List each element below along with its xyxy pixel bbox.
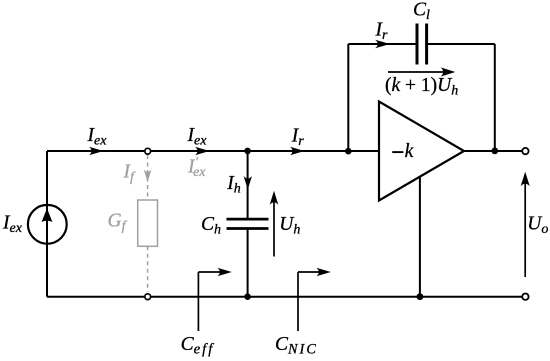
svg-text:Iex: Iex [2, 212, 23, 236]
wire gray dashed lower [147, 246, 149, 292]
svg-text:Cl: Cl [413, 0, 430, 23]
wire feedback top right [428, 43, 495, 45]
svg-text:Uo: Uo [527, 213, 548, 237]
svg-text:Ceff: Ceff [181, 334, 215, 358]
terminal output bottom [522, 294, 528, 300]
op-amp -k [379, 102, 464, 201]
svg-text:Ir: Ir [375, 20, 389, 44]
svg-text:Uh: Uh [279, 214, 300, 238]
node Ch bottom [244, 293, 251, 300]
wire feedback top left [348, 43, 415, 45]
svg-text:(k + 1)Uh: (k + 1)Uh [385, 75, 458, 99]
terminal output top [522, 148, 528, 154]
arrow (k+1)Uh [388, 67, 455, 76]
node open top left [145, 148, 151, 154]
node amp ground [417, 293, 424, 300]
svg-text:Ih: Ih [226, 173, 241, 197]
arrowhead Iex first [89, 147, 104, 156]
arrowhead If gray [144, 170, 152, 183]
wire feedback right vertical [494, 44, 496, 151]
label -k [392, 151, 403, 153]
svg-text:Iex: Iex [187, 125, 208, 149]
svg-text:I′ex: I′ex [187, 155, 206, 180]
svg-text:If: If [123, 162, 137, 186]
resistor Gf [138, 200, 158, 246]
svg-text:Ch: Ch [201, 214, 221, 238]
svg-text:CNIC: CNIC [275, 334, 318, 358]
wire Ch upper [247, 151, 249, 218]
arrowhead Iex second [195, 147, 210, 156]
svg-text:Gf: Gf [108, 211, 128, 235]
node feedback left [345, 148, 352, 155]
wire feedback left vertical [347, 44, 349, 151]
capacitor Cl [417, 24, 427, 65]
arrow Uh [270, 191, 279, 257]
wire gray dashed upper [147, 155, 149, 200]
marker Ceff [198, 268, 231, 331]
wire output [464, 150, 522, 152]
wire left rail [46, 151, 48, 297]
current source Iex [28, 205, 67, 244]
arrow Uo [521, 172, 530, 277]
svg-text:k: k [405, 141, 414, 162]
svg-text:Iex: Iex [87, 125, 108, 149]
arrowhead Ir feedback [375, 40, 390, 49]
wire top rail [47, 150, 380, 152]
arrowhead Ir input [290, 147, 305, 156]
marker Cnic [298, 268, 331, 331]
capacitor Ch [227, 219, 269, 228]
arrowhead Ih [244, 176, 252, 190]
wire bottom rail [47, 296, 522, 298]
node open bottom left [145, 294, 151, 300]
wire amp ground [419, 177, 421, 297]
svg-text:Ir: Ir [291, 125, 305, 149]
wire Ch lower [247, 230, 249, 297]
node Ch top [244, 148, 251, 155]
node output [491, 148, 498, 155]
